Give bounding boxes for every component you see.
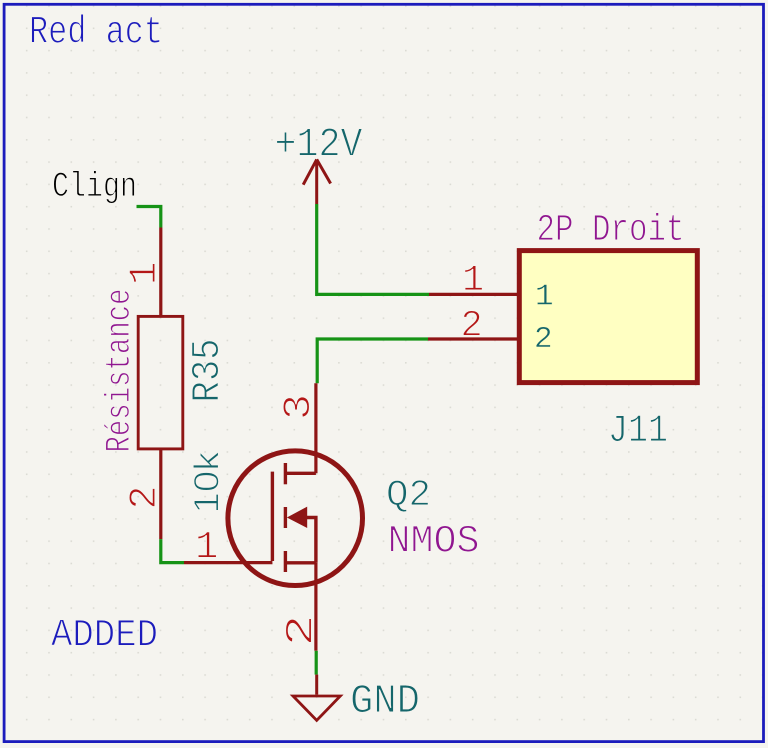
svg-text:2: 2 [461, 306, 483, 348]
svg-text:R35: R35 [186, 339, 231, 403]
svg-text:J11: J11 [608, 409, 668, 453]
svg-text:3: 3 [277, 394, 321, 420]
svg-text:Clign: Clign [52, 166, 137, 207]
resistor R35 pin 1 [159, 228, 162, 316]
transistor Q2 drain lead [285, 472, 316, 475]
ground symbol GND stem [315, 675, 318, 695]
svg-text:2: 2 [534, 322, 553, 357]
transistor Q2 body circle [228, 451, 363, 586]
resistor R35 pin 2 [159, 450, 162, 539]
transistor Q2 drain channel bar [284, 463, 287, 484]
wire from resistor pin 2 to transistor Q2 gate [161, 539, 184, 563]
wire from label Clign to resistor R35 pin 1 [137, 207, 161, 228]
svg-text:10k: 10k [188, 451, 227, 514]
resistor R35 body [138, 316, 183, 449]
transistor Q2 pin 2 (source) [314, 563, 317, 651]
wire from connector J11 pin 2 to transistor Q2 drain [317, 339, 428, 383]
svg-text:2P Droit: 2P Droit [537, 209, 685, 252]
svg-text:NMOS: NMOS [388, 520, 480, 564]
transistor Q2 bulk arrow [287, 507, 307, 528]
transistor Q2 middle channel bar [284, 507, 287, 528]
svg-text:1: 1 [462, 260, 484, 302]
transistor Q2 pin 1 (gate) [184, 561, 272, 564]
connector J11 pin 2 [428, 337, 517, 340]
svg-text:Résistance: Résistance [100, 289, 140, 453]
transistor Q2 source channel bar [284, 551, 287, 572]
svg-text:Red act: Red act [29, 11, 163, 55]
svg-text:2: 2 [280, 615, 324, 647]
transistor Q2 pin 3 (drain) [314, 383, 317, 473]
svg-text:2: 2 [123, 486, 167, 510]
wire from transistor Q2 source to GND [315, 651, 318, 675]
transistor Q2 source lead [285, 561, 316, 564]
svg-text:Q2: Q2 [386, 475, 431, 517]
svg-text:GND: GND [350, 679, 420, 725]
transistor Q2 gate plate [271, 472, 274, 561]
svg-text:ADDED: ADDED [51, 614, 158, 658]
svg-text:1: 1 [535, 280, 554, 315]
transistor Q2 bulk lead [307, 518, 316, 563]
svg-text:1: 1 [123, 262, 167, 285]
wire from +12V to connector J11 pin 1 [317, 204, 429, 294]
power symbol +12V [275, 123, 364, 204]
ground symbol GND triangle [293, 696, 340, 720]
connector J11 pin 1 [429, 293, 517, 296]
svg-text:1: 1 [195, 526, 218, 570]
connector J11 body [519, 251, 697, 383]
